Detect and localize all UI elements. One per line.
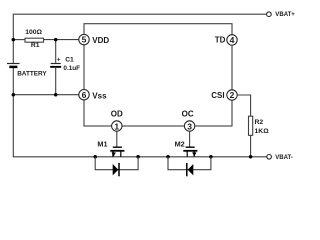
svg-text:1KΩ: 1KΩ [255, 128, 270, 135]
pin 1 OD [111, 109, 123, 131]
wire CSI pin to R2 [237, 95, 250, 116]
wire R1 right lead to VDD pin [44, 39, 80, 41]
node junction M2 drain [166, 155, 170, 159]
svg-text:OD: OD [111, 109, 123, 118]
capacitor C1 [50, 57, 80, 72]
svg-text:5: 5 [82, 35, 87, 45]
svg-text:VBAT+: VBAT+ [275, 12, 295, 18]
transistor M2 [175, 139, 198, 156]
svg-text:1: 1 [114, 121, 119, 131]
svg-text:VBAT-: VBAT- [275, 155, 293, 161]
svg-text:R1: R1 [31, 42, 40, 49]
wire M1 body-diode loop [95, 157, 138, 170]
svg-text:3: 3 [187, 121, 192, 131]
node VBAT- terminal [267, 155, 293, 161]
wire R2 bottom lead [250, 135, 252, 157]
diode D2 body diode of M2 [187, 163, 194, 176]
svg-text:100Ω: 100Ω [25, 29, 42, 36]
svg-text:C1: C1 [65, 57, 74, 64]
svg-text:6: 6 [82, 90, 87, 100]
svg-text:BATTERY: BATTERY [17, 70, 47, 77]
svg-text:M2: M2 [175, 139, 185, 148]
svg-text:2: 2 [230, 90, 235, 100]
node junction R2/bottom rail [249, 155, 253, 159]
wire R1 left lead [13, 39, 25, 41]
node junction battery/R1 [12, 38, 16, 42]
transistor M1 [97, 140, 124, 157]
svg-text:TD: TD [215, 36, 226, 45]
node VBAT+ terminal [267, 12, 296, 18]
svg-text:VDD: VDD [92, 36, 109, 45]
node junction M1 drain [93, 155, 97, 159]
wire M2 body-diode loop [168, 157, 211, 170]
pin 2 CSI [211, 90, 237, 100]
node junction R1/C1 [54, 38, 58, 42]
svg-text:0.1uF: 0.1uF [63, 65, 80, 72]
resistor R1 [25, 29, 44, 49]
node junction C1/Vss [54, 93, 58, 97]
node junction M2 source [209, 155, 213, 159]
svg-text:Vss: Vss [92, 92, 107, 101]
node junction M1 source [136, 155, 140, 159]
svg-text:4: 4 [230, 35, 235, 45]
IC U1 battery-protection controller body [84, 24, 232, 126]
pin 5 VDD [79, 34, 110, 44]
svg-text:CSI: CSI [211, 91, 224, 100]
resistor R2 [249, 116, 270, 135]
wire gate M2 from pin 3 [189, 131, 191, 146]
wire top rail battery+ to VBAT+ [13, 14, 266, 63]
svg-text:OC: OC [182, 109, 194, 118]
svg-text:+: + [57, 58, 61, 64]
battery BT1 [7, 64, 47, 78]
diode D1 body diode of M1 [113, 163, 119, 176]
pin 4 TD [215, 35, 237, 45]
wire battery negative to bottom rail [13, 67, 266, 157]
svg-text:R2: R2 [255, 119, 264, 126]
wire gate M1 from pin 1 [116, 131, 118, 146]
node junction battery/Vss [12, 93, 16, 97]
pin 3 OC [182, 109, 195, 131]
wire C1 top lead [55, 40, 57, 63]
wire C1 bottom lead [55, 68, 57, 95]
svg-text:M1: M1 [97, 140, 107, 149]
pin 6 Vss [79, 90, 107, 101]
wire Vss net battery line to Vss pin [13, 94, 79, 96]
